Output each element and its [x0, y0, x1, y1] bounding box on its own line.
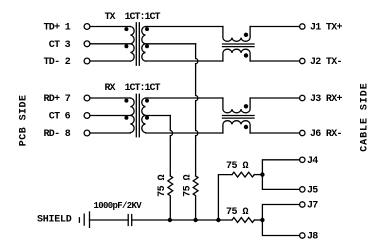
transformer T2 phase dots [124, 99, 149, 120]
svg-text:J1 TX+: J1 TX+ [310, 23, 343, 34]
resistor R3 label 75 ohm [226, 161, 249, 172]
wire fork to J8 [262, 220, 299, 236]
transformer T1 TX secondary winding [142, 27, 146, 62]
svg-text:TD- 2: TD- 2 [43, 57, 70, 68]
transformer T1 TX primary winding [130, 27, 134, 62]
svg-text:J4: J4 [307, 156, 318, 167]
wire TD-2 to T1 [90, 60, 130, 62]
choke L2 bottom winding [223, 121, 250, 133]
wire L1 to J2 [250, 60, 300, 62]
svg-text:J5: J5 [307, 186, 318, 197]
resistor R2 label 75 ohm [183, 174, 194, 197]
resistor R1 75 ohm vertical [168, 176, 173, 220]
wire T2 secondary bottom to choke L2 [146, 132, 223, 134]
wire RD+7 to T2 [90, 97, 130, 99]
wire T1 secondary CT to node [146, 43, 196, 45]
wire C1 to ground rail [132, 219, 232, 221]
text PCB SIDE (left side label) [19, 95, 30, 147]
choke L2 phase dots [244, 104, 248, 129]
svg-text:J8: J8 [307, 232, 318, 243]
terminal CT 3 [49, 40, 90, 51]
wire T2 secondary CT to node [146, 115, 171, 117]
choke L1 top winding [223, 27, 250, 42]
terminal J5 [300, 186, 319, 197]
wire fork to J4 [262, 160, 299, 175]
terminal RD+ 7 [43, 94, 89, 105]
capacitor C1 label [94, 201, 143, 211]
wire fork to J7 [262, 205, 299, 221]
svg-text:TD+ 1: TD+ 1 [43, 23, 70, 34]
choke L2 top winding [223, 98, 250, 113]
junction dot R3 fork [260, 172, 264, 176]
transformer T2 core [136, 94, 139, 136]
terminal TD+ 1 [43, 23, 89, 34]
svg-text:1000pF/2KV: 1000pF/2KV [94, 201, 143, 211]
svg-text:TX 1CT:1CT: TX 1CT:1CT [105, 12, 161, 23]
svg-text:RX 1CT:1CT: RX 1CT:1CT [105, 83, 161, 94]
choke L1 bottom winding [223, 49, 250, 61]
svg-text:PCB SIDE: PCB SIDE [19, 95, 30, 147]
capacitor C1 1000pF/2KV [128, 215, 132, 226]
wire T1 secondary bottom to choke L1 [146, 60, 223, 62]
wire rail up to R3 [218, 175, 232, 220]
transformer T1 core [136, 23, 139, 65]
junction dot R4 fork [260, 218, 264, 222]
svg-text:75 Ω: 75 Ω [183, 174, 194, 197]
junction dot R2 bottom [193, 218, 197, 222]
terminal J1 TX+ [300, 23, 343, 34]
resistor R4 label 75 ohm [226, 207, 249, 218]
terminal J8 [300, 232, 319, 243]
junction dot R1 bottom [168, 218, 172, 222]
transformer T2 RX secondary winding [142, 98, 146, 133]
terminal J4 [300, 156, 319, 167]
svg-text:J3 RX+: J3 RX+ [310, 94, 343, 105]
wire L1 to J1 [250, 26, 300, 28]
wire R3 to fork node [254, 174, 262, 176]
svg-text:CABLE SIDE: CABLE SIDE [360, 82, 371, 152]
svg-text:J7: J7 [307, 201, 318, 212]
text CABLE SIDE (right side label) [360, 82, 371, 152]
svg-text:75 Ω: 75 Ω [226, 207, 249, 218]
wire T1 secondary top to choke L1 [146, 26, 223, 28]
choke L1 phase dots [244, 33, 248, 58]
wire TD+1 to T1 [90, 26, 130, 28]
svg-text:75 Ω: 75 Ω [226, 161, 249, 172]
svg-text:RD+ 7: RD+ 7 [43, 94, 70, 105]
terminal TD- 2 [43, 57, 89, 68]
svg-text:CT 3: CT 3 [49, 40, 71, 51]
choke L1 core [223, 44, 255, 47]
terminal J3 RX+ [300, 94, 343, 105]
wire T2 secondary top to choke L2 [146, 97, 223, 99]
svg-text:75 Ω: 75 Ω [157, 174, 168, 197]
choke L2 core [223, 116, 255, 119]
wire RX CT vertical drop with hop [170, 116, 172, 176]
wire CT3 to T1 [90, 43, 130, 45]
label RX 1CT:1CT [105, 83, 161, 94]
wire fork to J5 [262, 175, 299, 190]
wire RD-8 to T2 [90, 132, 130, 134]
wire L2 to J6 [250, 132, 300, 134]
svg-text:J6 RX-: J6 RX- [310, 129, 342, 140]
wire shield to capacitor C1 [90, 219, 129, 221]
wire R4 to fork node [254, 219, 262, 221]
svg-text:CT 6: CT 6 [49, 112, 71, 123]
terminal J7 [300, 201, 319, 212]
wire CT6 to T2 [90, 115, 130, 117]
terminal J2 TX- [300, 57, 342, 68]
terminal CT 6 [49, 112, 90, 123]
svg-text:RD- 8: RD- 8 [43, 129, 70, 140]
terminal J6 RX- [300, 129, 342, 140]
resistor R2 75 ohm vertical [193, 176, 198, 220]
label TX 1CT:1CT [105, 12, 161, 23]
svg-text:SHIELD: SHIELD [37, 214, 72, 225]
resistor R4 75 ohm horizontal [232, 218, 254, 223]
text SHIELD [37, 214, 72, 225]
wire TX CT vertical drop with hops [196, 44, 198, 176]
transformer T1 phase dots [124, 27, 149, 48]
wire L2 to J3 [250, 97, 300, 99]
terminal RD- 8 [43, 129, 89, 140]
resistor R3 75 ohm horizontal [232, 172, 254, 177]
junction dot rail to R3 [216, 218, 220, 222]
svg-text:J2 TX-: J2 TX- [310, 57, 342, 68]
shield terminal symbol [79, 212, 89, 227]
resistor R1 label 75 ohm [157, 174, 168, 197]
transformer T2 RX primary winding [130, 98, 134, 133]
